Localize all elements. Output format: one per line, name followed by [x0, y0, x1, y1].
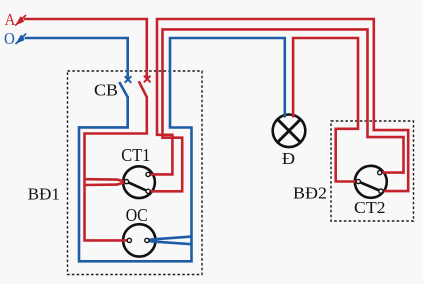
svg-text:OC: OC — [126, 205, 148, 225]
svg-text:BĐ2: BĐ2 — [293, 183, 327, 202]
svg-text:BĐ1: BĐ1 — [28, 185, 60, 204]
svg-text:O: O — [4, 29, 15, 48]
svg-text:CB: CB — [94, 81, 118, 100]
svg-text:CT2: CT2 — [354, 198, 386, 217]
svg-text:Đ: Đ — [282, 149, 295, 168]
svg-text:CT1: CT1 — [121, 145, 150, 165]
svg-text:A: A — [5, 10, 16, 29]
